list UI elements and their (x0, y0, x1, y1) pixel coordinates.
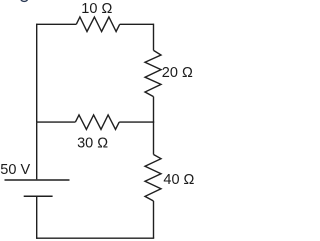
svg-text:40 Ω: 40 Ω (163, 172, 194, 188)
resistor R1 10 Ω (horizontal zigzag, top branch) (76, 17, 119, 32)
cropped descender of letter g (top edge artifact) (21, 0, 28, 1)
label 40 Ω for resistor R4 (163, 172, 194, 188)
svg-text:20 Ω: 20 Ω (162, 65, 193, 81)
wire resistor R2 to middle-right node (153, 97, 155, 123)
label 50 V for battery V1 (0, 162, 30, 178)
wire left side: top corner down to middle-left node (36, 24, 38, 123)
label 30 Ω for resistor R3 (77, 135, 108, 151)
battery V1 negative plate (short) (24, 195, 53, 197)
wire resistor R1 to top-right corner (120, 23, 154, 25)
label 10 Ω for resistor R1 (81, 1, 112, 17)
wire resistor R4 down to bottom-right corner (153, 201, 155, 238)
wire middle-left node to resistor R3 (37, 121, 76, 123)
wire bottom rail (37, 237, 155, 239)
svg-text:50 V: 50 V (0, 162, 30, 178)
wire resistor R3 to middle-right node (119, 121, 153, 123)
wire battery negative plate down to bottom-left corner (36, 196, 38, 239)
svg-text:30 Ω: 30 Ω (77, 135, 108, 151)
resistor R4 40 Ω (vertical zigzag, right lower branch) (145, 155, 161, 202)
wire top-left corner to resistor R1 (37, 23, 77, 25)
wire middle-right node down to resistor R4 (153, 122, 155, 154)
resistor R2 20 Ω (vertical zigzag, right upper branch) (145, 50, 161, 96)
node middle-right junction (153, 121, 155, 122)
battery V1 positive plate (long) (5, 179, 70, 181)
wire right side: top corner down to resistor R2 (153, 24, 155, 51)
label 20 Ω for resistor R2 (162, 65, 193, 81)
svg-text:10 Ω: 10 Ω (81, 1, 112, 17)
resistor R3 30 Ω (horizontal zigzag, middle branch) (75, 115, 119, 129)
wire middle-left node down to battery positive plate (36, 122, 38, 179)
